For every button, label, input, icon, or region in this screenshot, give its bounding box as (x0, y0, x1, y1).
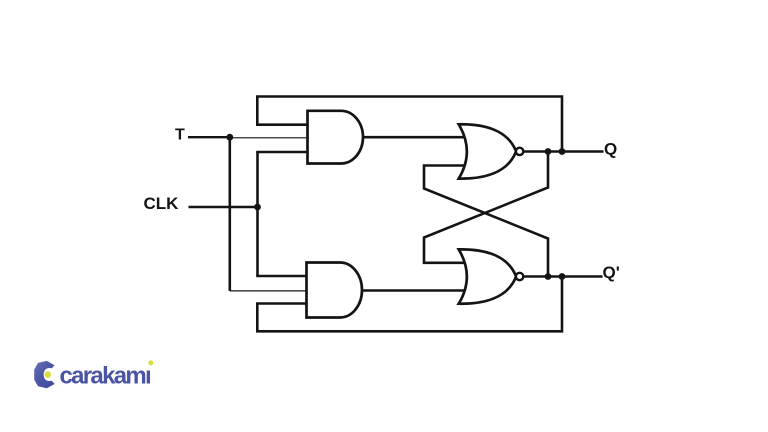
and-gate U1 (top) (308, 111, 364, 164)
nor-gate U3 (top) body (459, 124, 516, 178)
and-gate U2 (bottom) (307, 263, 363, 318)
svg-text:T: T (175, 127, 185, 144)
wire T thin to AND1 middle input (230, 137, 307, 139)
junction dot Q to cross-couple (545, 148, 552, 155)
wire T lead (188, 136, 230, 138)
logo carakami icon C (34, 361, 54, 388)
svg-text:CLK: CLK (144, 194, 180, 213)
wire cross-couple Q to NOR2 upper input (424, 152, 548, 263)
svg-text:carakamı: carakamı (60, 363, 151, 390)
nor-gate U4 output bubble (516, 273, 523, 280)
wire T vertical down (229, 137, 232, 291)
wire bottom feedback loop from Q' (257, 277, 562, 332)
wire CLK stub to AND1 lower input (256, 151, 307, 154)
logo carakami i tittle (148, 360, 153, 365)
junction dot Q' to bottom feedback (559, 273, 566, 280)
nor-gate U4 (bottom) body (459, 249, 516, 303)
wire T thin to AND2 middle input (230, 290, 307, 292)
junction dot on T line (226, 134, 233, 141)
junction dot Q to top feedback (559, 148, 566, 155)
wire AND2 output to NOR2 lower input (362, 289, 464, 292)
wire top feedback loop from Q (257, 97, 562, 152)
wire cross-couple Q' to NOR1 lower input (424, 166, 548, 277)
junction dot Q' to cross-couple (545, 273, 552, 280)
junction dot on CLK line (254, 204, 261, 211)
wire CLK lead (189, 206, 259, 209)
wire AND1 output to NOR1 upper input (362, 136, 464, 139)
wire CLK vertical (256, 152, 259, 276)
wire NOR2 output to Q' (523, 275, 603, 278)
wire NOR1 output to Q (523, 150, 604, 153)
svg-text:Q': Q' (603, 263, 620, 282)
wire CLK stub to AND2 upper input (256, 275, 306, 278)
svg-text:Q: Q (604, 140, 617, 159)
nor-gate U3 output bubble (516, 148, 523, 155)
logo carakami icon yellow dot (45, 371, 52, 378)
